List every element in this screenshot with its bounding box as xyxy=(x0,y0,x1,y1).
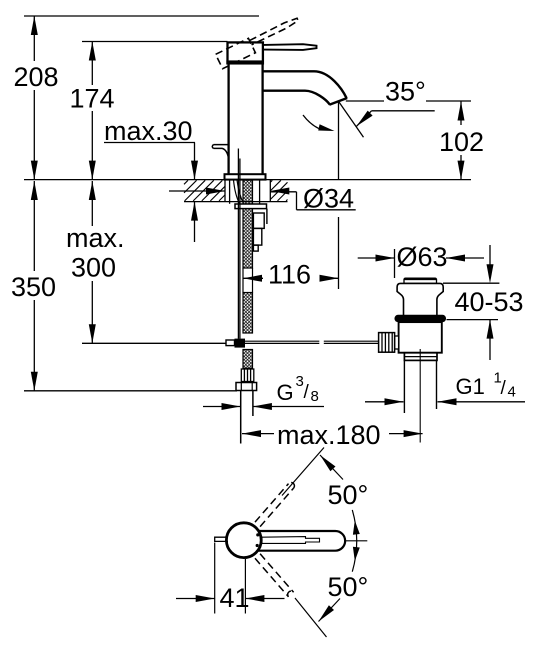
svg-text:Ø34: Ø34 xyxy=(303,184,354,214)
wire lever axis extension xyxy=(346,540,368,542)
wire 174 reference line xyxy=(82,41,228,43)
wire lower 50deg extension line xyxy=(295,598,327,637)
drain valve body xyxy=(399,322,442,353)
wire 40-53 lower reference line xyxy=(447,319,499,321)
dimension 116 arrows xyxy=(243,275,262,282)
top view faucet body circle xyxy=(226,523,261,558)
mounting washer under deck xyxy=(235,204,267,209)
wire deck/counter top line xyxy=(24,179,471,181)
faucet lever (horizontal position) xyxy=(264,44,317,50)
svg-text:8: 8 xyxy=(311,388,319,405)
wire 35deg label underline left xyxy=(346,100,384,102)
svg-text:174: 174 xyxy=(70,84,115,114)
dimension 350 line xyxy=(31,181,38,200)
svg-text:max.180: max.180 xyxy=(277,420,381,450)
threaded shank lower section xyxy=(243,293,253,334)
pop-up rod knob behind body xyxy=(212,145,228,159)
drain knob knurled xyxy=(379,333,399,353)
wire max.300 lower reference line xyxy=(82,342,226,344)
supply pipe G3/8 xyxy=(240,391,242,444)
svg-text:max.: max. xyxy=(66,223,125,253)
wire 35deg label underline right xyxy=(426,100,471,102)
dimension 174 line xyxy=(89,42,96,61)
svg-text:4: 4 xyxy=(508,384,516,401)
rod tee fitting xyxy=(226,340,235,346)
hose ferrule ribbed connector xyxy=(241,369,254,382)
dimension 208 line xyxy=(31,16,38,35)
svg-text:G: G xyxy=(277,380,294,405)
wire 350 lower reference line xyxy=(24,390,237,392)
drain flange xyxy=(397,283,443,315)
svg-text:50°: 50° xyxy=(328,572,369,602)
upper 50deg leader arrow xyxy=(320,455,336,471)
dimension G1 1/4 arrows and underline xyxy=(365,401,404,403)
50deg angular dimension arc xyxy=(352,510,356,572)
supply nut xyxy=(236,383,257,391)
svg-text:116: 116 xyxy=(268,260,311,290)
faucet spout xyxy=(263,71,347,98)
wire vertical line from spout outlet (upper) xyxy=(338,101,340,180)
svg-text:/: / xyxy=(501,378,507,399)
svg-text:50°: 50° xyxy=(328,480,369,510)
arrow pointing at 35deg line xyxy=(357,111,373,127)
svg-text:/: / xyxy=(304,382,310,403)
svg-text:G1: G1 xyxy=(456,374,485,399)
wire deck underside line xyxy=(184,201,288,203)
deck hole left wall xyxy=(224,180,226,202)
drain union band xyxy=(404,353,437,361)
svg-text:350: 350 xyxy=(11,272,56,302)
faucet handle raised position (dashed) xyxy=(216,15,303,68)
top view lever xyxy=(254,531,345,551)
hose curves in shank xyxy=(234,180,244,204)
drain tailpipe G1 1/4 xyxy=(403,360,405,413)
dimension max.300 line xyxy=(89,181,96,200)
top view lever raised 50deg up (dashed) xyxy=(255,482,294,526)
faucet handle cap xyxy=(228,42,263,63)
svg-text:300: 300 xyxy=(71,253,116,283)
top view screw dots xyxy=(256,533,259,536)
faucet body outline xyxy=(227,63,229,174)
svg-text:40-53: 40-53 xyxy=(455,287,524,317)
dimension 41 arrows xyxy=(176,598,215,600)
wire 40-53 upper reference line xyxy=(443,282,499,284)
dimension 40-53 arrows xyxy=(489,245,491,265)
faucet base flange xyxy=(225,174,266,179)
svg-text:208: 208 xyxy=(14,62,59,92)
drain centerline xyxy=(419,349,421,443)
top view lever inner ridge xyxy=(262,537,320,544)
threaded hose section in hole xyxy=(243,180,253,204)
top view spout stub xyxy=(215,537,228,541)
drain pop-up plug cap xyxy=(404,278,438,282)
dimension Ø63 arrows xyxy=(358,257,395,259)
wire 35deg angled spray line xyxy=(338,101,363,137)
lower 50deg leader arrow xyxy=(319,605,335,621)
curved arrow at spout xyxy=(303,115,321,130)
flexible hose lower section xyxy=(243,350,253,369)
dimension 102 line xyxy=(458,102,465,121)
dimension Ø34 arrows and leader xyxy=(169,190,225,192)
threaded shank upper section xyxy=(243,209,253,268)
horizontal pop-up rod xyxy=(245,340,319,342)
shank middle plain section xyxy=(242,268,244,293)
drain seal ring xyxy=(395,315,447,322)
top view lever 50deg down (dashed) xyxy=(255,554,294,597)
svg-text:102: 102 xyxy=(439,127,484,157)
dimension G3/8 arrows and underline xyxy=(203,406,241,408)
wire 41 left extension line xyxy=(214,543,216,614)
wire 208 reference line (top) xyxy=(24,15,259,17)
faucet shank tube in hole xyxy=(229,180,231,204)
svg-text:Ø63: Ø63 xyxy=(397,242,448,272)
wire vertical line from spout outlet (lower) xyxy=(338,217,340,289)
dimension max.180 arrows xyxy=(242,430,261,437)
pop-up pull rod vertical xyxy=(237,149,239,339)
dimension max.30 leader and arrows xyxy=(104,142,195,144)
svg-text:41: 41 xyxy=(220,583,250,613)
deck hole right wall xyxy=(269,180,271,202)
wire 41 right extension line xyxy=(244,559,246,614)
deck cross-section hatching xyxy=(184,180,288,201)
svg-text:35°: 35° xyxy=(385,77,426,107)
svg-text:max.30: max.30 xyxy=(104,116,193,146)
mounting bracket xyxy=(253,209,267,252)
wire upper 50deg extension line xyxy=(282,448,324,496)
